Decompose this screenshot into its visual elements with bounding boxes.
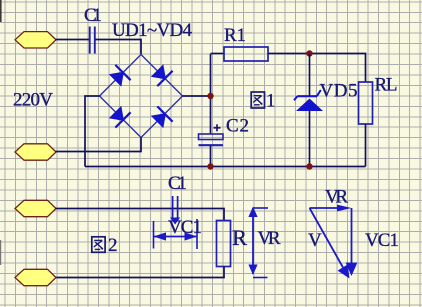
junction: C2 to bottom rail	[207, 163, 213, 169]
diode VD4 (lower-right)	[151, 106, 173, 128]
svg-text:1: 1	[266, 91, 276, 112]
svg-text:V: V	[308, 230, 322, 251]
resistor RL	[359, 82, 373, 124]
wire: R bottom to connector P4	[56, 267, 225, 278]
VC1 measure: left tick	[153, 221, 155, 249]
svg-text:220V: 220V	[13, 90, 53, 111]
svg-text:C1: C1	[84, 5, 102, 26]
phasor VR arrow	[310, 205, 352, 212]
svg-text:2: 2	[108, 235, 118, 256]
VR measure: top tick	[253, 207, 268, 209]
svg-text:UD1~VD4: UD1~VD4	[112, 20, 193, 41]
phasor V arrow	[310, 208, 350, 279]
connector P4	[15, 269, 56, 285]
VC1 measure: right tick	[196, 219, 198, 249]
svg-text:VR: VR	[258, 228, 281, 249]
wire: C2 bottom lead	[210, 145, 212, 166]
capacitor C1 (figure 1)	[90, 27, 95, 54]
connector P2 (220V bottom terminal)	[15, 144, 56, 160]
diode VD1 (upper-left)	[109, 65, 131, 87]
label 图2	[92, 235, 118, 256]
screen edge artifact top-left	[0, 0, 2, 22]
svg-text:VR: VR	[325, 187, 348, 208]
junction node B (R1 out / VD5 top)	[306, 50, 312, 56]
wire: connector P2 to bridge bottom corner	[56, 138, 142, 152]
wire: VD5 vertical (node B to bottom rail)	[309, 54, 311, 167]
bridge rectifier diamond	[100, 55, 183, 138]
VR measure: bottom tick	[253, 277, 268, 279]
diode VD2 (upper-right)	[151, 64, 173, 86]
svg-text:C2: C2	[226, 116, 249, 137]
diode VD3 (lower-left)	[109, 106, 131, 128]
capacitor C1 (figure 2) with down arrow	[170, 196, 180, 225]
wire: bottom rail	[85, 166, 366, 168]
connector P3	[15, 200, 56, 216]
resistor R (figure 2)	[217, 221, 231, 267]
zener diode VD5	[294, 90, 323, 111]
svg-text:R1: R1	[224, 25, 246, 46]
wire: node A vertical (R1 left to C2 top)	[210, 54, 212, 134]
phasor VC1 arrow	[346, 208, 358, 276]
resistor R1	[224, 47, 268, 61]
wire: C1 right plate to bridge top corner	[96, 40, 142, 55]
wire: RL bottom lead	[365, 124, 367, 167]
svg-text:C1: C1	[168, 173, 187, 194]
wire: connector P1 to C1 left plate	[56, 39, 90, 41]
svg-text:RL: RL	[375, 75, 398, 96]
VC1 measure: double arrow	[154, 232, 198, 240]
svg-text:VC1: VC1	[365, 230, 399, 251]
wire: bridge right corner to node A	[183, 95, 211, 97]
wire: P3 to R top	[56, 209, 225, 221]
VR measure: vertical double arrow	[248, 207, 257, 276]
wire: R1 left lead	[211, 53, 225, 55]
wire: bridge left corner down to ground rail	[85, 96, 100, 167]
svg-text:VC1: VC1	[168, 217, 202, 238]
screen edge artifact mid-left	[0, 240, 1, 265]
label 图1	[251, 91, 275, 112]
wire: R1 right lead to top-right corner	[268, 54, 366, 83]
svg-text:R: R	[232, 225, 247, 250]
C2 plus sign	[214, 124, 221, 131]
capacitor C2 (electrolytic)	[199, 134, 224, 145]
svg-text:VD5: VD5	[320, 81, 358, 102]
connector P1 (220V top terminal)	[15, 32, 56, 48]
junction: VD5 to bottom rail	[306, 163, 312, 169]
junction node A (bridge output)	[207, 93, 213, 99]
